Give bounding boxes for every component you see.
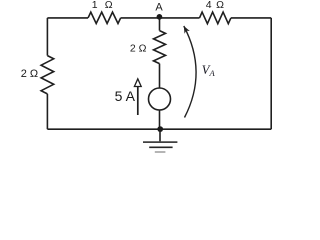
voltage VA arrowhead <box>184 26 190 34</box>
current direction arrow open head <box>134 79 141 87</box>
resistor R2 middle value 2 ohm <box>154 31 166 64</box>
bottom junction dot <box>157 126 163 132</box>
voltage VA arc <box>184 26 196 118</box>
wire left lower <box>46 94 48 129</box>
current direction arrow shaft <box>137 87 139 116</box>
ground bar 3 <box>155 151 166 153</box>
ground bar 1 <box>143 141 177 143</box>
resistor R2 left value 2 ohm <box>41 56 54 94</box>
svg-text:4: 4 <box>206 0 212 11</box>
svg-text:Ω: Ω <box>216 0 224 11</box>
node A junction dot <box>157 14 163 20</box>
svg-text:1: 1 <box>92 0 98 11</box>
wire top-left segment <box>47 17 88 19</box>
resistor R4 value 4 ohm <box>200 12 231 24</box>
svg-text:2 Ω: 2 Ω <box>21 68 38 80</box>
wire right side <box>270 18 272 129</box>
wire top-right segment <box>231 17 271 19</box>
wire top-middle segment <box>121 17 160 19</box>
wire top segment node A to R4 <box>160 17 200 19</box>
svg-text:5 A: 5 A <box>115 88 136 104</box>
current source I1 circle <box>149 88 171 110</box>
svg-text:A: A <box>155 2 163 14</box>
svg-text:2 Ω: 2 Ω <box>130 42 147 54</box>
ground bar 2 <box>149 146 172 148</box>
wire middle resistor to source <box>159 64 161 88</box>
wire left upper <box>46 18 48 56</box>
ground stub <box>159 129 161 141</box>
svg-text:Ω: Ω <box>105 0 113 11</box>
resistor R1 value 1 ohm <box>88 12 121 23</box>
wire bottom <box>47 128 271 130</box>
wire node A down stub <box>159 18 161 31</box>
wire source to bottom <box>159 110 161 129</box>
